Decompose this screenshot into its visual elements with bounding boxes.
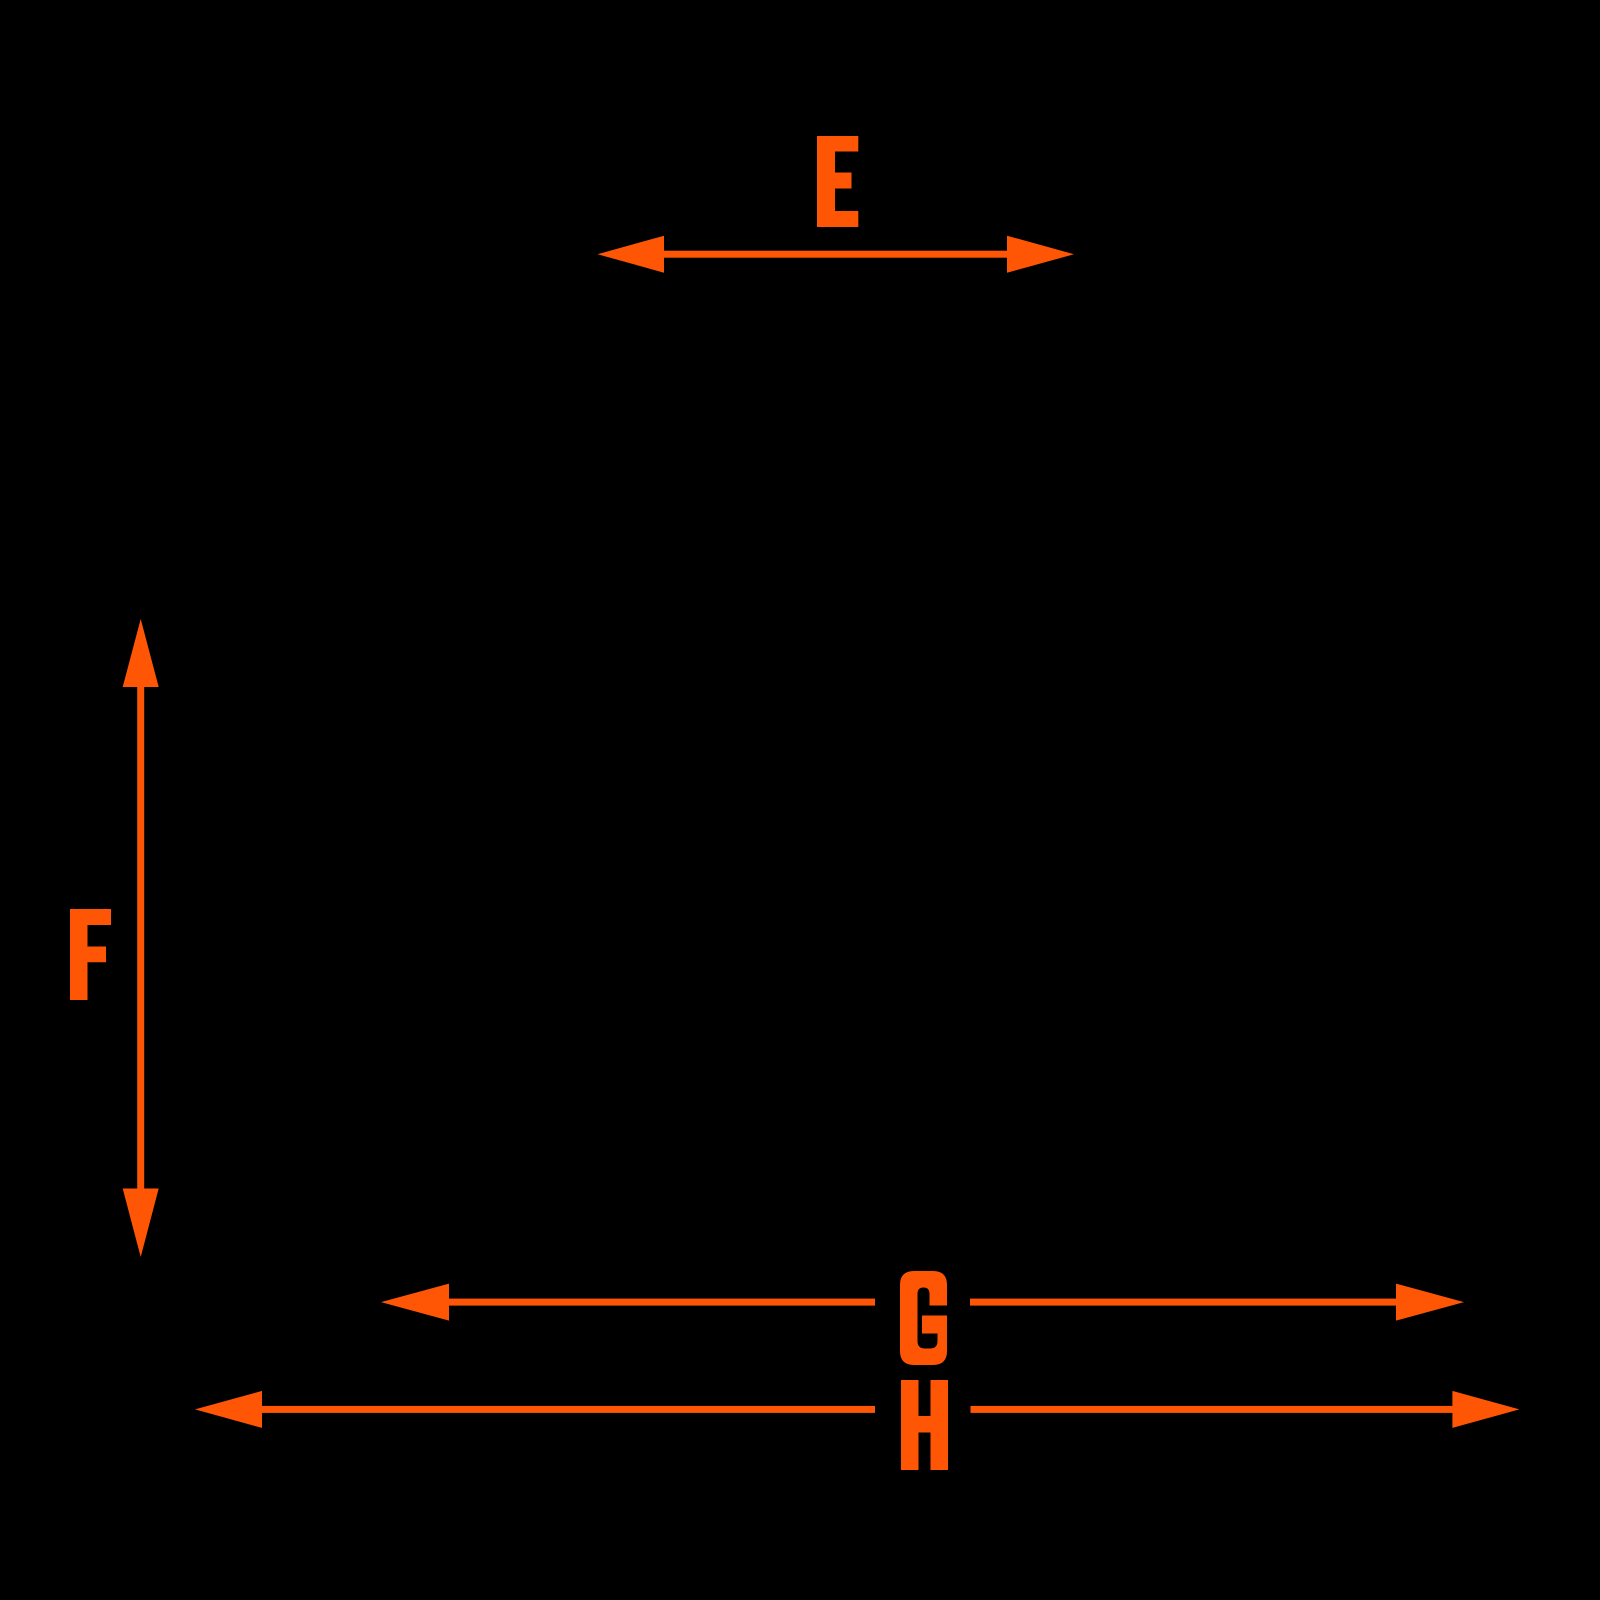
dimension H arrowhead right [1452, 1391, 1519, 1428]
dimension G arrowhead right [1396, 1284, 1464, 1321]
dimension H arrow line left segment [259, 1406, 875, 1413]
dimension G label outer [900, 1271, 947, 1365]
dimension F arrowhead bottom [123, 1189, 159, 1258]
dimension E arrow line [660, 251, 1010, 258]
dimension E arrowhead left [598, 236, 665, 273]
dimension F arrowhead top [123, 619, 159, 687]
dimension F arrow line [137, 684, 144, 1191]
dimension H arrowhead left [195, 1391, 262, 1428]
dimension G arrow line right segment [970, 1299, 1399, 1306]
dimension G arrowhead left [381, 1284, 449, 1321]
dimension E label [817, 136, 858, 227]
dimension H label [901, 1380, 948, 1470]
dimension F label [70, 909, 111, 1000]
dimension G label counter [918, 1288, 938, 1349]
dimension H arrow line right segment [971, 1406, 1456, 1413]
dimension E arrowhead right [1007, 236, 1074, 273]
dimension G arrow line left segment [446, 1299, 875, 1306]
